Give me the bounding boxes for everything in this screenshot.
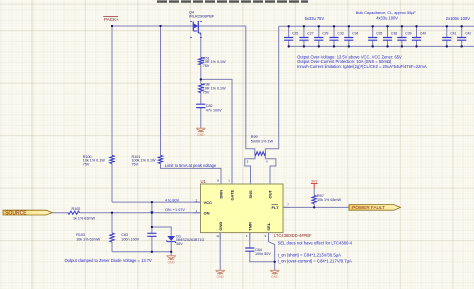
svg-text:U1: U1: [201, 179, 207, 184]
svg-text:C38: C38: [391, 32, 397, 36]
transistor Q4 IRLR2908PBF: [190, 21, 202, 38]
capacitor C83: [147, 233, 156, 236]
capacitor C82: [196, 104, 205, 107]
svg-text:GATE: GATE: [230, 189, 235, 200]
svg-text:R99: R99: [251, 135, 258, 139]
svg-text:3: 3: [246, 234, 248, 238]
svg-text:C27: C27: [307, 32, 313, 36]
svg-text:t_on (over-current) = C84*1.21: t_on (over-current) = C84*1.217V/9.7µA: [278, 258, 352, 263]
wire GND pin stub: [219, 233, 221, 270]
ground under GND pin: [215, 270, 225, 274]
svg-text:SEL: SEL: [266, 222, 271, 230]
svg-text:VCC: VCC: [204, 200, 213, 205]
svg-text:5: 5: [247, 160, 249, 164]
resistor R100: [110, 155, 114, 163]
svg-text:DRN: DRN: [219, 190, 224, 199]
svg-text:75V: 75V: [203, 64, 210, 68]
svg-text:1: 1: [228, 179, 230, 183]
svg-text:C25: C25: [292, 32, 298, 36]
wire FLT to port: [283, 206, 349, 208]
junction VCC node: [151, 201, 153, 203]
capacitor C84: [245, 248, 254, 251]
wire OUT connection jog: [265, 154, 276, 185]
svg-text:4x33u 100V: 4x33u 100V: [376, 15, 398, 20]
power port 3V3: [311, 184, 318, 189]
svg-text:10k 1% 63mW: 10k 1% 63mW: [317, 198, 341, 202]
wire R97 pullup: [313, 189, 315, 208]
junction PACK+ rail / R101: [159, 25, 161, 27]
svg-text:R102: R102: [72, 207, 81, 211]
capacitor C35: [368, 25, 382, 48]
junction PACK+ rail / divider: [111, 25, 113, 27]
resistor R98: [199, 84, 203, 93]
resistor R99 sense: [255, 152, 266, 156]
svg-text:t_on (short) = C84*1.213V/30.5: t_on (short) = C84*1.213V/30.5µA: [278, 252, 341, 257]
capacitor C39: [397, 25, 411, 48]
svg-text:C82: C82: [206, 104, 213, 108]
capacitor C25: [284, 25, 298, 48]
junction ON wire crossing: [151, 212, 153, 214]
svg-text:75V: 75V: [83, 163, 90, 167]
svg-text:GND: GND: [197, 133, 205, 137]
junction gate network: [200, 78, 202, 80]
ground under C82: [196, 128, 206, 132]
resistor R103: [110, 233, 114, 242]
svg-text:GND: GND: [271, 275, 279, 279]
svg-text:C34: C34: [352, 32, 358, 36]
port SOURCE: [3, 210, 52, 215]
svg-text:TMR: TMR: [247, 222, 252, 231]
pin stubs U1: [194, 178, 290, 240]
svg-text:ON: +1.07V: ON: +1.07V: [165, 208, 185, 212]
svg-text:11: 11: [216, 234, 219, 238]
svg-text:56V: 56V: [176, 242, 183, 246]
capacitor C41: [442, 25, 456, 48]
svg-text:3V3: 3V3: [311, 179, 317, 183]
svg-text:POWER FAULT: POWER FAULT: [352, 205, 385, 210]
junction FLT / R97: [313, 206, 315, 208]
wire cap bank bottom rail: [289, 45, 474, 47]
wire R101 to DRN: [161, 26, 222, 184]
svg-text:75V: 75V: [203, 90, 210, 94]
capacitor C42: [457, 25, 471, 48]
svg-text:10k 1% 63mW: 10k 1% 63mW: [76, 238, 100, 242]
ground under SEL/TMR: [270, 270, 280, 274]
svg-text:C29: C29: [322, 32, 328, 36]
svg-text:75V: 75V: [132, 163, 139, 167]
junction VCC filter node: [151, 226, 153, 228]
resistor R97: [312, 195, 316, 203]
capacitor C29: [314, 25, 328, 48]
port POWER FAULT: [349, 205, 401, 211]
wire rail to sense resistor left: [246, 26, 255, 154]
svg-text:9: 9: [265, 234, 267, 238]
wire VCC filter vertical: [151, 202, 153, 252]
wire zener branch: [152, 227, 171, 256]
resistor R51: [199, 57, 203, 64]
svg-text:Limit to 5mA at peak voltage: Limit to 5mA at peak voltage: [165, 163, 217, 168]
wire gate network: [200, 35, 202, 128]
svg-text:C35: C35: [376, 32, 382, 36]
svg-text:C40: C40: [420, 32, 426, 36]
svg-text:GND: GND: [168, 261, 176, 265]
svg-text:100n 100V: 100n 100V: [121, 238, 139, 242]
svg-text:GND: GND: [217, 275, 225, 279]
capacitor C27: [299, 25, 313, 48]
wire gate to GATE pin: [201, 79, 232, 184]
capacitor C33: [329, 25, 343, 48]
IC U1 LTC4380IDD-4 body: [201, 184, 284, 233]
svg-text:LTC4380IDD-4#PBF: LTC4380IDD-4#PBF: [274, 233, 312, 238]
wire cap bank top rail: [279, 25, 474, 27]
screen artifact dashed bar: [157, 0, 308, 2]
svg-text:8: 8: [217, 179, 219, 183]
svg-text:OUT: OUT: [268, 190, 273, 199]
wire SEL jog to GND: [269, 233, 275, 270]
zener diode D1 MMSZ5263BT1G: [167, 236, 175, 241]
junction zener to gnd rail: [170, 251, 172, 253]
resistor R101: [158, 155, 162, 163]
svg-text:4 to 80V: 4 to 80V: [165, 198, 180, 202]
svg-text:SNS: SNS: [248, 190, 253, 199]
svg-text:C42: C42: [465, 32, 471, 36]
svg-text:FLT: FLT: [272, 205, 280, 210]
wire PACK+ divider vertical to VCC: [112, 26, 201, 202]
svg-text:C41: C41: [450, 32, 456, 36]
svg-text:PACK+: PACK+: [104, 17, 119, 22]
svg-text:Inrush-Current limitation: Iga: Inrush-Current limitation: Igate/(2g)*(C…: [297, 64, 427, 69]
svg-text:GND: GND: [218, 222, 223, 231]
capacitor C40: [412, 25, 426, 48]
svg-text:IRLR2908PBF: IRLR2908PBF: [189, 13, 215, 18]
svg-text:2x100n 100V: 2x100n 100V: [446, 16, 470, 21]
junction C83 to gnd rail: [151, 251, 153, 253]
svg-text:100n 50V: 100n 50V: [255, 252, 271, 256]
svg-text:C84: C84: [255, 248, 262, 252]
svg-text:C39: C39: [405, 32, 411, 36]
svg-text:7: 7: [287, 202, 289, 206]
svg-text:Output clamped to Zener Diode: Output clamped to Zener Diode Voltage = …: [65, 258, 153, 263]
svg-text:Bulk Capacitance, CL, approx 5: Bulk Capacitance, CL, approx 55µF: [356, 11, 417, 15]
wire SNS connection jog: [245, 154, 255, 185]
wire sense resistor right to cap rail: [265, 26, 278, 153]
svg-text:C83: C83: [121, 233, 128, 237]
svg-text:ON: ON: [204, 210, 210, 215]
capacitor C34: [344, 25, 358, 48]
svg-text:5x33u 75V: 5x33u 75V: [305, 16, 325, 21]
svg-text:1k 1% 63mW: 1k 1% 63mW: [73, 217, 95, 221]
wire R103 branch: [111, 213, 113, 252]
wire PACK+ rail: [112, 25, 246, 27]
junction TMR-SEL gnd join: [274, 261, 276, 263]
svg-text:6: 6: [266, 160, 268, 164]
svg-text:C33: C33: [337, 32, 343, 36]
junction ON node / R103: [111, 212, 113, 214]
ground under zener: [166, 256, 176, 260]
capacitor C38: [383, 25, 397, 48]
svg-text:5m00 1% 1W: 5m00 1% 1W: [251, 140, 274, 144]
wire left gnd rail: [112, 251, 171, 253]
resistor R102: [68, 211, 80, 214]
svg-text:SOURCE: SOURCE: [5, 211, 27, 217]
wire TMR / C84: [250, 233, 275, 262]
svg-text:R103: R103: [76, 233, 85, 237]
wire SOURCE to ON (with hop): [52, 211, 200, 213]
svg-text:SEL does not have effect for L: SEL does not have effect for LTC4380-4: [278, 241, 353, 246]
svg-text:47n 100V: 47n 100V: [206, 109, 222, 113]
